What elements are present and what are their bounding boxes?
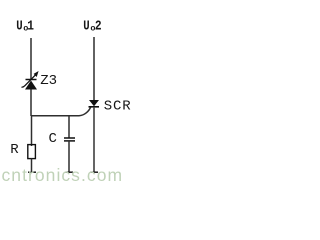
svg-text:Z3: Z3 [40, 73, 57, 89]
svg-text:cntronics.com: cntronics.com [2, 165, 124, 185]
wire SCR cathode to bottom terminal [93, 107, 95, 173]
svg-text:SCR: SCR [104, 99, 132, 115]
svg-text:C: C [49, 131, 57, 147]
wire junction down to resistor R [31, 116, 33, 146]
terminal tick bottom right [91, 171, 99, 173]
svg-text:1: 1 [27, 17, 34, 34]
terminal tick bottom middle [66, 171, 74, 173]
terminal tick bottom left [28, 171, 36, 173]
node Uo2 label [83, 17, 101, 34]
wire rail down to capacitor C [68, 116, 70, 138]
capacitor C [64, 138, 75, 141]
svg-text:U: U [16, 18, 22, 34]
wire capacitor to bottom terminal [68, 141, 70, 173]
svg-text:2: 2 [95, 17, 102, 34]
thyristor SCR [89, 100, 100, 107]
node Uo1 label [16, 17, 34, 34]
wire from Uo2 down to SCR anode [93, 37, 95, 100]
wire from Uo1 down to zener Z3 anode [30, 38, 32, 80]
wire from Z3 cathode down to junction [30, 90, 32, 117]
wire resistor to bottom terminal [31, 159, 33, 174]
zener diode Z3 [22, 71, 39, 90]
svg-text:R: R [10, 142, 19, 158]
resistor R [28, 145, 36, 159]
wire horizontal rail to gate [31, 106, 91, 116]
svg-text:U: U [83, 18, 89, 34]
